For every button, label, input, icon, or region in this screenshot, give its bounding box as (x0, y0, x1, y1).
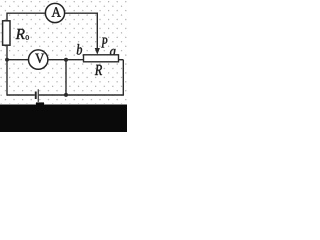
label a (110, 49, 116, 56)
wire slider vertical (96, 13, 98, 50)
node junction left (5, 58, 9, 62)
wire middle junction down (65, 60, 67, 95)
black band bump (36, 102, 44, 106)
node junction middle (64, 58, 68, 62)
battery long plate (38, 89, 39, 102)
voltmeter V (29, 50, 48, 69)
label R (95, 65, 102, 75)
wire top right segment (65, 12, 98, 14)
label R0 (16, 29, 25, 39)
wire top left segment (7, 12, 46, 14)
wire left vertical below R0 (6, 45, 8, 95)
wire right vertical (122, 60, 124, 96)
label b (77, 44, 82, 55)
node junction bottom (64, 93, 68, 97)
wire rheostat to right corner (119, 59, 124, 61)
label P (101, 38, 107, 48)
wire left vertical into R0 (6, 13, 8, 22)
ammeter A (45, 3, 64, 22)
wire bottom right segment (39, 94, 124, 96)
wire voltmeter to rheostat (48, 59, 84, 61)
black band bottom (0, 105, 127, 133)
battery short plate (35, 92, 37, 100)
wire junction to voltmeter (7, 59, 29, 61)
rheostat R (84, 55, 119, 62)
wire bottom left segment (7, 94, 35, 96)
resistor R0 (3, 21, 10, 45)
slider arrow (95, 48, 100, 55)
